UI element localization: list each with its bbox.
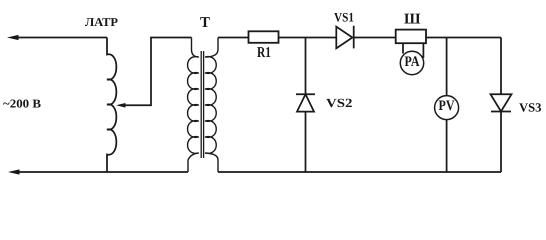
wire: VS2 to bottom rail	[305, 112, 307, 172]
wire: PV branch bottom	[446, 120, 448, 172]
svg-text:ЛАТР: ЛАТР	[85, 15, 118, 29]
transformer T secondary winding	[205, 38, 218, 173]
svg-text:PV: PV	[439, 98, 455, 114]
wire: VS3 branch bottom	[500, 112, 502, 173]
svg-text:VS3: VS3	[519, 101, 542, 115]
svg-text:VS1: VS1	[334, 10, 354, 25]
node: VS2 branch junction top	[305, 38, 307, 95]
wiper arrow of ЛАТР	[116, 103, 126, 108]
wire: secondary top to R1	[218, 37, 249, 39]
wire: bottom input lead	[18, 171, 188, 173]
wire: VS3 branch top	[500, 38, 502, 95]
transformer T primary winding	[188, 38, 199, 173]
svg-text:Т: Т	[200, 15, 210, 31]
wire: PV branch top	[446, 38, 448, 96]
wire: bottom rail (secondary side)	[218, 171, 501, 173]
svg-text:PA: PA	[405, 54, 420, 70]
wire: shunt to right corner (junction at PV)	[426, 37, 501, 39]
input terminal arrow (top)	[7, 35, 19, 40]
wire: R1 to VS1 (junction at VS2 branch)	[279, 37, 337, 39]
svg-text:Ш: Ш	[404, 12, 421, 28]
diode VS3	[491, 94, 512, 111]
resistor R1	[249, 31, 279, 43]
svg-text:VS2: VS2	[326, 96, 353, 110]
wire: VS1 to shunt Ш	[354, 37, 396, 39]
input terminal arrow (bottom)	[8, 169, 20, 174]
wire: top input lead	[17, 37, 107, 39]
shunt Ш box	[396, 30, 426, 44]
diode VS2	[296, 93, 315, 95]
svg-text:~200 В: ~200 В	[3, 97, 41, 111]
wire: shunt to PA meter	[403, 43, 423, 58]
transformer core	[201, 51, 203, 158]
voltmeter PV	[435, 96, 459, 120]
svg-text:R1: R1	[257, 45, 271, 61]
autotransformer ЛАТР winding	[107, 38, 116, 173]
ammeter PA	[400, 51, 423, 74]
wire: wiper to transformer primary	[124, 38, 192, 106]
diode VS1	[336, 27, 352, 49]
